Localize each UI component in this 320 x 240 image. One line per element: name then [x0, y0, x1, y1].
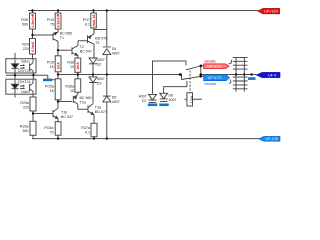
svg-text:UP+13V: UP+13V — [264, 9, 278, 13]
svg-text:D6: D6 — [169, 94, 174, 98]
svg-text:75: 75 — [50, 23, 54, 27]
svg-text:Opto2: Opto2 — [21, 90, 30, 94]
wire T2 collector to T3 base — [78, 41, 87, 46]
wire T2 base — [58, 49, 72, 51]
svg-text:220: 220 — [23, 47, 29, 51]
junction dots top rail — [31, 9, 33, 11]
svg-text:BC 560: BC 560 — [80, 96, 92, 100]
relay contact blade 2 — [182, 76, 201, 79]
opto2 phototransistor — [30, 80, 33, 94]
current arrow PO4 — [57, 15, 60, 18]
wire T3 collector to D2 — [93, 44, 95, 58]
wire R26 column stub — [32, 11, 34, 59]
svg-text:R26a: R26a — [20, 125, 29, 129]
wire flag stubs — [201, 66, 204, 77]
svg-text:D4: D4 — [112, 47, 117, 51]
svg-text:D2: D2 — [97, 63, 102, 67]
svg-text:BD-577: BD-577 — [95, 110, 107, 114]
svg-text:richiesta: richiesta — [204, 82, 216, 86]
svg-text:UF+17V: UF+17V — [208, 76, 222, 80]
svg-text:BC 547: BC 547 — [80, 50, 92, 54]
svg-text:8.1: 8.1 — [85, 23, 90, 27]
junction dots connector wire — [235, 73, 237, 75]
wire T2 emitter to R36 — [77, 55, 79, 79]
wire T1 base from R26/R24 node — [33, 34, 54, 36]
svg-text:Rel 1: Rel 1 — [189, 96, 193, 104]
resistor PO5a — [55, 79, 61, 100]
resistor R25a — [30, 97, 36, 111]
svg-text:D7: D7 — [142, 99, 147, 103]
svg-text:R37a: R37a — [81, 126, 90, 130]
capacitor C6 blue plate — [159, 104, 168, 107]
junction dots common bus — [200, 65, 203, 68]
svg-text:max 1A: max 1A — [92, 14, 96, 27]
resistor R26a — [30, 121, 36, 135]
svg-text:Opto1: Opto1 — [21, 60, 30, 64]
svg-text:R36: R36 — [67, 61, 74, 65]
svg-text:D5: D5 — [112, 95, 117, 99]
resistor PO4a — [55, 122, 61, 136]
svg-text:0.1: 0.1 — [85, 130, 90, 134]
junction dots mid net — [57, 73, 59, 75]
power flag UP-13V bottom right — [259, 136, 281, 141]
wire net to connector and UF flag — [201, 74, 257, 76]
relay contact blade 1 — [186, 66, 200, 70]
wire R36a to T2a emitter — [77, 92, 79, 94]
resistor R36 — [75, 58, 81, 72]
svg-text:4007: 4007 — [97, 77, 105, 81]
wire node A to T2a base — [58, 100, 72, 108]
svg-text:variabile: variabile — [204, 60, 216, 64]
svg-text:T2a: T2a — [80, 101, 86, 105]
net flag UF 4 — [256, 72, 280, 77]
svg-text:R24: R24 — [22, 43, 29, 47]
transistor T3a — [88, 104, 94, 115]
current arrow R26 — [31, 15, 34, 18]
wire opto2 bottom stubs — [15, 94, 33, 97]
diode D2 — [89, 58, 97, 64]
capacitor C7 plate — [149, 102, 156, 104]
svg-text:PO4: PO4 — [47, 18, 54, 22]
transistor T1b — [53, 108, 58, 119]
svg-text:4007: 4007 — [139, 95, 147, 99]
optocoupler Opto1 box — [6, 59, 36, 73]
resistor R36a — [75, 79, 81, 92]
svg-text:CNY17A: CNY17A — [18, 69, 32, 73]
red net hook arc — [229, 60, 232, 64]
power flag UP+13V top right — [258, 8, 280, 13]
net flag UF+17V (richiesta) — [204, 75, 230, 87]
svg-text:1K: 1K — [50, 89, 55, 93]
junction dot R25a node — [32, 112, 34, 114]
svg-text:1K: 1K — [50, 65, 55, 69]
diode D4 — [103, 47, 111, 55]
svg-text:4007: 4007 — [97, 58, 105, 62]
opto2 LED — [12, 80, 19, 94]
wire D6 branch to coil — [164, 81, 187, 93]
wire T2a collector to T3a base — [78, 104, 88, 109]
junction dots opto row — [14, 74, 16, 76]
svg-text:BD-575: BD-575 — [95, 37, 107, 41]
wire PO4 column top — [57, 11, 59, 33]
svg-text:T1b: T1b — [61, 111, 67, 115]
svg-text:PO4a: PO4a — [44, 126, 53, 130]
relay coil Rel1 — [187, 93, 193, 106]
wire mid horizontal net — [58, 74, 182, 76]
svg-text:1mA: 1mA — [76, 62, 80, 70]
diode D6 — [160, 93, 168, 99]
transistor T3 — [88, 30, 95, 45]
wire T3 emitter node to D4 column — [94, 30, 107, 35]
wire relay loop — [153, 61, 187, 94]
connector ladder — [233, 57, 248, 91]
relay mechanical dashed link — [189, 71, 191, 93]
svg-text:BC-556: BC-556 — [60, 32, 72, 36]
svg-text:BC 547: BC 547 — [61, 115, 73, 119]
svg-text:UF 4: UF 4 — [268, 74, 276, 78]
svg-text:4007: 4007 — [112, 100, 120, 104]
wire T3a emitter to R37a — [93, 115, 95, 139]
wire T1b emitter to PO4a — [57, 119, 59, 139]
svg-text:4007: 4007 — [112, 52, 120, 56]
transistor T2a — [73, 95, 78, 105]
resistor PO5 — [55, 56, 61, 72]
capacitor C6 plate — [160, 101, 167, 103]
wire PO7 column — [93, 11, 95, 30]
wire T1 collector to node — [57, 41, 59, 50]
svg-text:UP-13V: UP-13V — [265, 137, 278, 141]
svg-text:T3: T3 — [95, 41, 99, 45]
svg-text:560: 560 — [22, 23, 28, 27]
net flag UP+17V (variabile) — [204, 60, 229, 69]
svg-text:D3: D3 — [97, 82, 102, 86]
wire relay coil stubs — [185, 98, 202, 100]
opto2 arrows — [20, 85, 25, 89]
resistor R37a — [91, 123, 97, 136]
resistor R24 — [30, 39, 36, 55]
wire relay pole 2 bend — [181, 75, 183, 80]
wire relay common bus — [200, 66, 202, 77]
svg-text:UP+17V: UP+17V — [207, 65, 221, 69]
svg-text:6.3mA: 6.3mA — [31, 41, 35, 52]
wire opto inter-stage row — [6, 73, 48, 79]
resistor PO4 — [55, 13, 61, 29]
opto1 LED — [12, 60, 19, 73]
diode D7 — [149, 94, 157, 100]
junction dot node A lower — [57, 100, 59, 102]
svg-text:R36a: R36a — [65, 85, 74, 89]
opto1 arrows — [20, 65, 25, 69]
svg-text:220: 220 — [23, 106, 29, 110]
junction dots bottom rail — [57, 137, 59, 139]
diode D5 — [103, 96, 111, 102]
svg-text:560: 560 — [23, 129, 29, 133]
svg-text:1mA: 1mA — [56, 62, 60, 70]
junction dot T1 collector node — [57, 49, 59, 51]
transistor T1 — [53, 32, 58, 41]
capacitor C8 blue plate — [248, 77, 256, 80]
diode D3 — [89, 77, 97, 83]
svg-text:4007: 4007 — [169, 98, 177, 102]
wire PO5 column — [57, 50, 59, 79]
wire top rail — [28, 10, 258, 12]
opto1 phototransistor — [30, 59, 33, 73]
svg-text:CNY17A: CNY17A — [18, 80, 32, 84]
transistor T2 — [72, 46, 78, 56]
svg-text:T1: T1 — [60, 36, 64, 40]
svg-text:PO5: PO5 — [47, 61, 54, 65]
resistor R26 — [30, 13, 36, 29]
svg-text:T2: T2 — [80, 45, 84, 49]
wire D2 cathode to mid rail — [92, 64, 94, 75]
svg-text:75: 75 — [50, 130, 54, 134]
wire D3 anode / cathode to T3a collector — [92, 75, 94, 104]
wire bottom rail — [32, 138, 259, 140]
wire capacitor branch to node A — [48, 75, 55, 80]
junction dot relay pole — [179, 73, 182, 76]
svg-text:R25a: R25a — [20, 101, 29, 105]
wire opto1 LED anode stub — [14, 53, 16, 59]
optocoupler Opto2 box — [6, 79, 36, 94]
wire T1b base — [33, 113, 53, 115]
wire D4 column — [106, 11, 108, 139]
capacitor C1 blue bar — [43, 79, 52, 82]
svg-text:PO7: PO7 — [83, 18, 90, 22]
svg-text:R26: R26 — [21, 18, 28, 22]
svg-text:PO5a: PO5a — [45, 85, 54, 89]
svg-text:10: 10 — [70, 89, 74, 93]
resistor PO7 — [91, 13, 97, 28]
wire R25a-R26a node — [32, 111, 34, 139]
blue net hook arc — [229, 79, 231, 83]
capacitor C7 blue plate — [148, 104, 157, 107]
svg-text:4.5mA: 4.5mA — [56, 17, 60, 28]
svg-text:T3a: T3a — [95, 106, 101, 110]
svg-text:10: 10 — [70, 65, 74, 69]
junction dots R26/R24 node — [31, 34, 33, 36]
svg-text:4.5mA: 4.5mA — [31, 17, 35, 28]
